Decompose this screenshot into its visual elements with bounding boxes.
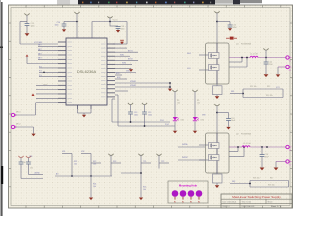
svg-text:G2: G2 bbox=[289, 165, 291, 167]
svg-text:DSL6236A: DSL6236A bbox=[77, 69, 97, 74]
svg-text:H3: H3 bbox=[190, 201, 192, 203]
svg-text:BST2: BST2 bbox=[128, 58, 133, 60]
svg-text:VS2: VS2 bbox=[81, 151, 84, 153]
svg-text:VS1: VS1 bbox=[62, 151, 65, 153]
svg-text:R11 10k: R11 10k bbox=[250, 86, 257, 88]
svg-text:TP2: TP2 bbox=[161, 161, 164, 163]
svg-text:Date: 2020-06-11: Date: 2020-06-11 bbox=[223, 200, 237, 203]
svg-text:PG2: PG2 bbox=[165, 124, 169, 126]
svg-text:H2: H2 bbox=[182, 201, 184, 203]
svg-text:VIN: VIN bbox=[202, 114, 206, 116]
svg-text:Sheet:: Sheet: bbox=[268, 200, 274, 203]
svg-text:Sheet: 1 / 1: Sheet: 1 / 1 bbox=[271, 205, 281, 208]
svg-text:10k: 10k bbox=[197, 102, 200, 104]
svg-text:BST1: BST1 bbox=[128, 50, 133, 52]
svg-text:H1: H1 bbox=[174, 201, 176, 203]
svg-text:L2 4.7uH: L2 4.7uH bbox=[243, 143, 251, 145]
svg-text:EN1: EN1 bbox=[116, 73, 120, 75]
svg-text:SW2: SW2 bbox=[122, 63, 126, 65]
svg-text:PG1: PG1 bbox=[160, 120, 164, 122]
svg-text:R18 10k: R18 10k bbox=[268, 185, 275, 187]
svg-text:100n: 100n bbox=[55, 25, 59, 27]
svg-text:VO1: VO1 bbox=[276, 87, 280, 89]
svg-text:VSNS2: VSNS2 bbox=[130, 85, 136, 87]
svg-text:SW2A: SW2A bbox=[182, 143, 188, 146]
svg-text:100n: 100n bbox=[134, 115, 138, 117]
svg-text:MaxLinear Switching Power Supp: MaxLinear Switching Power Supply bbox=[232, 195, 281, 199]
svg-text:VDD5: VDD5 bbox=[126, 71, 131, 73]
svg-text:R12: R12 bbox=[267, 86, 270, 88]
svg-text:DSL6236A-EVB: DSL6236A-EVB bbox=[242, 205, 256, 208]
svg-text:LG1: LG1 bbox=[187, 68, 191, 70]
svg-text:10k: 10k bbox=[93, 163, 96, 165]
svg-text:SW1: SW1 bbox=[120, 54, 124, 56]
svg-text:10k: 10k bbox=[74, 163, 77, 165]
svg-text:VSNS1: VSNS1 bbox=[130, 81, 136, 83]
svg-text:G1: G1 bbox=[289, 70, 291, 72]
svg-text:10k: 10k bbox=[143, 189, 146, 191]
svg-text:VCC5: VCC5 bbox=[113, 20, 118, 22]
svg-text:V1: V1 bbox=[289, 61, 291, 63]
svg-text:TP1: TP1 bbox=[143, 161, 146, 163]
svg-text:1V8: 1V8 bbox=[29, 156, 32, 158]
svg-text:FB1: FB1 bbox=[231, 91, 234, 93]
svg-text:FB2: FB2 bbox=[232, 181, 235, 183]
svg-text:R17: R17 bbox=[270, 178, 273, 180]
svg-text:SW2B: SW2B bbox=[182, 157, 188, 159]
svg-text:Time: 10:42: Time: 10:42 bbox=[242, 201, 251, 203]
svg-text:MIC2: MIC2 bbox=[16, 124, 21, 126]
svg-text:FDS6898A: FDS6898A bbox=[241, 43, 251, 46]
svg-text:10k: 10k bbox=[93, 186, 96, 188]
svg-text:L1 4.7uH: L1 4.7uH bbox=[250, 54, 258, 56]
svg-text:R13 10k: R13 10k bbox=[266, 95, 273, 97]
svg-text:R23: R23 bbox=[113, 161, 116, 163]
svg-text:V2: V2 bbox=[289, 150, 291, 152]
svg-text:C31: C31 bbox=[30, 168, 33, 170]
svg-text:Mounting Hole: Mounting Hole bbox=[179, 184, 198, 188]
svg-text:100n: 100n bbox=[148, 115, 152, 117]
svg-text:VCC3A3: VCC3A3 bbox=[34, 41, 43, 44]
svg-text:AGND: AGND bbox=[35, 171, 41, 174]
svg-text:100n: 100n bbox=[31, 26, 35, 28]
svg-text:FDS6898A: FDS6898A bbox=[241, 133, 251, 136]
svg-text:100n: 100n bbox=[121, 28, 125, 30]
svg-text:R16 10k: R16 10k bbox=[253, 178, 260, 180]
svg-text:EN2: EN2 bbox=[117, 77, 121, 79]
svg-text:H4: H4 bbox=[198, 201, 200, 203]
svg-text:C30: C30 bbox=[23, 162, 26, 164]
svg-text:REV: 1.0: REV: 1.0 bbox=[223, 206, 230, 208]
svg-text:HG1: HG1 bbox=[187, 53, 191, 55]
svg-text:MIC1: MIC1 bbox=[16, 112, 21, 114]
svg-text:10k: 10k bbox=[177, 102, 180, 104]
